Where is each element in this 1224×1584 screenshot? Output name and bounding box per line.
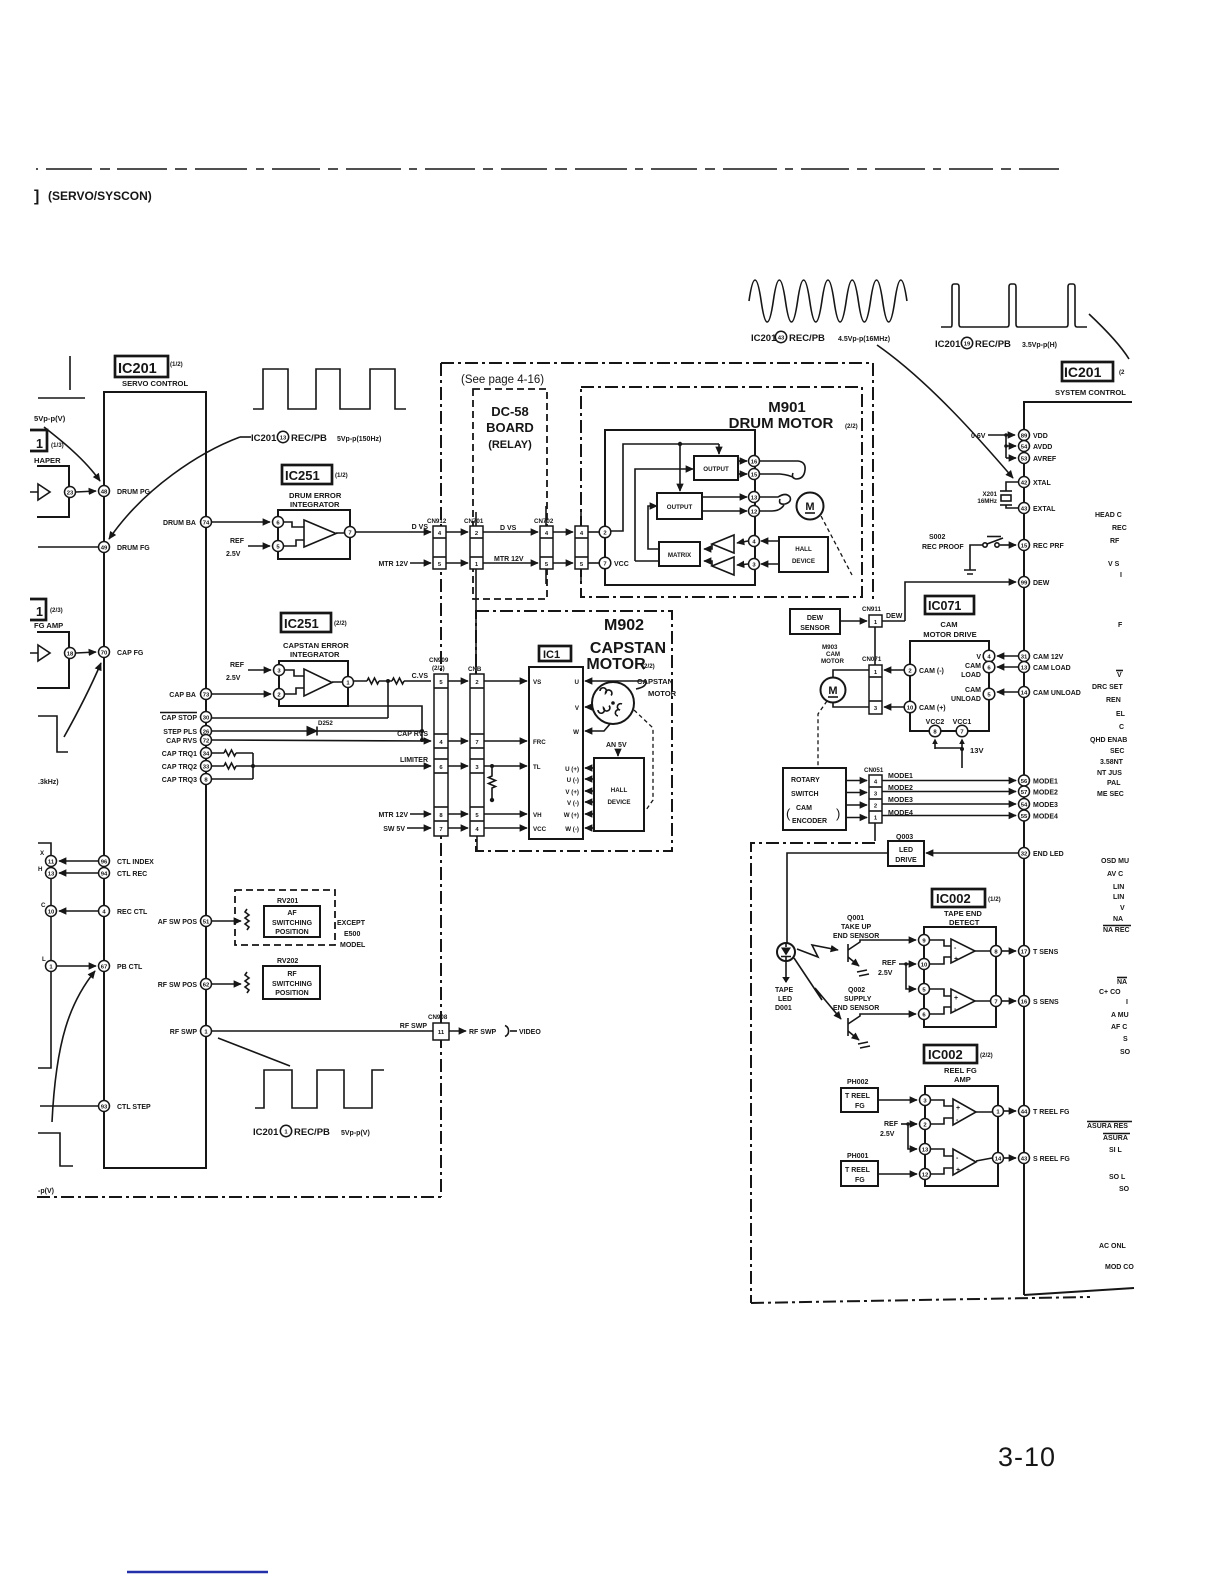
tape end detect block [924, 927, 996, 1027]
svg-text:12: 12 [751, 510, 758, 516]
svg-text:AVREF: AVREF [1033, 456, 1057, 463]
wire PH001 to pin12 [878, 1173, 917, 1175]
svg-text:2.5V: 2.5V [226, 675, 241, 682]
wire PB CTL [57, 965, 96, 967]
op-amp IC071 label box [925, 596, 974, 614]
svg-text:(2/2): (2/2) [980, 1052, 993, 1059]
svg-text:+: + [954, 956, 958, 963]
wire pin7 to S SENS [1002, 1000, 1016, 1002]
svg-text:(1/2): (1/2) [988, 896, 1001, 903]
svg-text:(2: (2 [1119, 369, 1125, 376]
wire AN5V down [617, 749, 619, 756]
svg-text:33: 33 [203, 765, 210, 771]
wire stubs [580, 512, 582, 584]
svg-text:57: 57 [1021, 790, 1028, 796]
svg-text:V: V [1120, 905, 1125, 912]
wire dew sensor to CN911 [840, 620, 867, 622]
svg-text:MODE4: MODE4 [1033, 814, 1058, 821]
svg-text:REF: REF [230, 538, 245, 545]
pin 44 T REEL FG [1019, 1106, 1030, 1117]
coil 3 [615, 704, 622, 716]
fg amp block partial [37, 632, 69, 688]
pin 2 [920, 1119, 931, 1130]
connector on M901 boundary [575, 526, 588, 569]
svg-text:(SERVO/SYSCON): (SERVO/SYSCON) [48, 189, 152, 203]
wire CN701 to CN702 row2 [483, 562, 538, 564]
waveform square wave top [253, 369, 406, 409]
svg-text:13: 13 [1021, 666, 1028, 672]
svg-text:AV C: AV C [1107, 871, 1123, 878]
svg-text:CN909: CN909 [429, 657, 449, 664]
node 10 [46, 906, 57, 917]
svg-text:NA: NA [1113, 916, 1123, 923]
svg-text:REC/PB: REC/PB [789, 333, 825, 344]
svg-text:53: 53 [1021, 457, 1028, 463]
svg-text:5Vp-p(V): 5Vp-p(V) [341, 1130, 370, 1137]
svg-text:SWITCH: SWITCH [791, 791, 819, 798]
wire from pin12 to loop [760, 505, 784, 511]
svg-text:D252: D252 [318, 720, 333, 727]
svg-text:43: 43 [1021, 1157, 1028, 1163]
svg-text:POSITION: POSITION [275, 990, 308, 997]
svg-text:REC/PB: REC/PB [975, 339, 1011, 350]
wire pin1 to T REEL FG [1004, 1110, 1016, 1112]
svg-text:IC002: IC002 [936, 891, 971, 906]
svg-text:M903: M903 [822, 644, 838, 651]
reel fg amp block [925, 1086, 998, 1186]
pin 6 [273, 517, 284, 528]
wire V [585, 706, 592, 708]
coil 1 [600, 688, 612, 696]
svg-text:CAP TRQ1: CAP TRQ1 [162, 751, 197, 758]
wire TRQ join vertical [252, 753, 254, 779]
svg-text:31: 31 [1021, 655, 1028, 661]
svg-text:42: 42 [1021, 481, 1028, 487]
svg-text:OUTPUT: OUTPUT [667, 504, 693, 511]
pin 1 RF SWP [201, 1026, 212, 1037]
svg-text:SO L: SO L [1109, 1174, 1126, 1181]
svg-text:V: V [1117, 672, 1122, 679]
svg-text:CN051: CN051 [864, 767, 884, 774]
svg-text:SWITCHING: SWITCHING [272, 981, 313, 988]
svg-text:TL: TL [533, 764, 541, 771]
svg-text:IC201: IC201 [118, 361, 157, 377]
svg-text:CAM: CAM [826, 651, 840, 658]
svg-text:D VS: D VS [500, 525, 517, 532]
dashed coupling cam motor [818, 701, 827, 766]
svg-text:POSITION: POSITION [275, 929, 308, 936]
pin 13 [920, 1144, 931, 1155]
pin 54 MODE3 [1019, 799, 1030, 810]
wires hall to IC1 [585, 767, 594, 769]
svg-text:C+ CO: C+ CO [1099, 989, 1121, 996]
svg-text:CTL STEP: CTL STEP [117, 1104, 151, 1111]
svg-text:S SENS: S SENS [1033, 999, 1059, 1006]
wire top-left partial box [38, 397, 85, 399]
op-amp comparator 1 [951, 939, 975, 963]
svg-text:32: 32 [1021, 852, 1028, 858]
wire CN912 to CN701 row2 [446, 562, 468, 564]
svg-text:SW 5V: SW 5V [383, 826, 405, 833]
svg-text:VDD: VDD [1033, 433, 1048, 440]
pin 67 PB CTL [99, 961, 110, 972]
svg-text:CAM: CAM [940, 620, 957, 629]
wire 74 to pin6 [212, 521, 270, 523]
svg-text:PB CTL: PB CTL [117, 964, 143, 971]
pin 5 CAM UNLOAD [983, 688, 995, 700]
svg-text:16: 16 [1021, 1000, 1028, 1006]
RV201 inner block [264, 906, 320, 937]
pin 14 CAM UNLOAD [1019, 687, 1030, 698]
svg-text:CN912: CN912 [427, 518, 447, 525]
svg-text:E500: E500 [344, 931, 360, 938]
wire pointer to waveform [218, 1038, 290, 1066]
IC201 system control box edges [1024, 402, 1132, 1295]
svg-text:TAKE UP: TAKE UP [841, 924, 872, 931]
svg-text:V: V [976, 654, 981, 661]
dash-dot frame bottom [751, 1297, 1090, 1303]
svg-text:10: 10 [921, 963, 928, 969]
wire CAP RVS long [212, 740, 431, 741]
wire into output1 top [718, 444, 720, 454]
svg-text:SEC: SEC [1110, 748, 1124, 755]
pin 96 CTL INDEX [99, 856, 110, 867]
matrix block [659, 542, 700, 566]
dash-dot tape sensor frame [751, 843, 875, 1303]
pin 8 VCC2 [929, 725, 941, 737]
svg-text:DRUM FG: DRUM FG [117, 545, 150, 552]
pin 49 DRUM FG [99, 542, 110, 553]
curve sine label to XTAL pin [877, 345, 1013, 478]
wire CNB bottom stub [476, 836, 478, 851]
svg-text:EXTAL: EXTAL [1033, 506, 1056, 513]
waveform sine 16MHz [749, 280, 907, 322]
svg-text:13V: 13V [970, 746, 984, 755]
svg-text:IC002: IC002 [928, 1047, 963, 1062]
svg-text:.3kHz): .3kHz) [38, 779, 59, 786]
svg-text:IC251: IC251 [285, 468, 320, 483]
svg-text:44: 44 [1021, 1110, 1028, 1116]
svg-text:IC071: IC071 [928, 599, 961, 613]
node 13 [46, 868, 57, 879]
wire top-left vertical stub [69, 356, 71, 390]
svg-text:REC/PB: REC/PB [294, 1127, 330, 1138]
svg-text:IC1: IC1 [543, 649, 560, 661]
svg-text:3-10: 3-10 [998, 1442, 1056, 1472]
cam motor drive block [910, 641, 989, 731]
svg-text:RF: RF [1110, 538, 1120, 545]
pin 1 [343, 677, 354, 688]
svg-text:DEW: DEW [807, 615, 824, 622]
svg-text:BOARD: BOARD [486, 420, 534, 435]
relay board DC-58 boundary [473, 389, 547, 599]
wire to AVREF [1006, 457, 1016, 459]
svg-text:RV201: RV201 [277, 898, 298, 905]
svg-text:C: C [41, 902, 46, 909]
svg-text:IC201: IC201 [251, 433, 277, 444]
op-amp IC002 tape end label box [932, 889, 985, 907]
svg-text:(1/2): (1/2) [335, 472, 348, 479]
resistor R2 [392, 678, 404, 684]
svg-text:RV202: RV202 [277, 958, 298, 965]
wire LED drive to tape LED [787, 853, 888, 943]
svg-text:MODE1: MODE1 [888, 773, 913, 780]
svg-text:HEAD C: HEAD C [1095, 512, 1122, 519]
svg-text:L: L [42, 956, 46, 963]
fg-amp IC label partial box [30, 599, 46, 620]
svg-text:10: 10 [48, 910, 55, 916]
svg-text:RF SWP: RF SWP [400, 1023, 428, 1030]
svg-text:H: H [38, 866, 43, 873]
pin 70 CAP FG [99, 647, 110, 658]
amplifier symbol partial in shaper [30, 484, 50, 500]
wire junction down to CAP STOP [387, 681, 389, 718]
svg-text:DRC SET: DRC SET [1092, 684, 1123, 691]
wire output1 to pin16 [738, 460, 747, 462]
box bottom edge [1024, 1288, 1134, 1295]
wire REC CTL [59, 910, 98, 912]
pin 43 S REEL FG [1019, 1153, 1030, 1164]
svg-text:DEVICE: DEVICE [607, 799, 630, 806]
wire winding loop from pin13 [760, 495, 790, 505]
wire 0 6V to VDD [988, 434, 1015, 436]
wire CAP STOP [212, 717, 388, 719]
pin 5 [273, 541, 284, 552]
svg-text:43: 43 [778, 336, 785, 342]
wire 13V supply [935, 741, 962, 768]
svg-text:(2/2): (2/2) [845, 423, 858, 430]
svg-text:(1/2): (1/2) [170, 361, 183, 368]
svg-text:AF C: AF C [1111, 1024, 1127, 1031]
wire matrix to output2 [648, 506, 659, 549]
wire amp1 to matrix [704, 544, 712, 549]
wire CN911 to dew net [882, 620, 905, 622]
curve pulse label toward IC201 [1089, 314, 1129, 359]
wire pin4 to amp1 [737, 541, 748, 543]
pin 2 CAM(-) [904, 664, 916, 676]
svg-text:VCC: VCC [614, 561, 629, 568]
svg-text:13: 13 [280, 436, 287, 442]
svg-text:17: 17 [1021, 950, 1028, 956]
svg-text:D001: D001 [775, 1005, 792, 1012]
op-amp IC201 system control label box [1062, 362, 1113, 381]
svg-text:CN908: CN908 [428, 1014, 448, 1021]
op-amp reel 1 [953, 1099, 976, 1125]
pin 7 VCC [599, 557, 611, 569]
svg-text:M: M [805, 501, 814, 513]
pin 53 AVREF [1019, 453, 1030, 464]
pin 8 CAP TRQ3 [201, 774, 212, 785]
svg-text:CAPSTAN ERROR: CAPSTAN ERROR [283, 641, 349, 650]
svg-text:CN701: CN701 [464, 518, 484, 525]
svg-text:SO: SO [1119, 1186, 1130, 1193]
node step pls junction [420, 729, 424, 733]
svg-text:IC201: IC201 [751, 333, 777, 344]
svg-text:MOTOR: MOTOR [648, 689, 677, 698]
blue scan artifact line [127, 1571, 268, 1573]
svg-text:48: 48 [101, 490, 108, 496]
svg-text:VH: VH [533, 812, 542, 819]
pin 32 END LED [1019, 848, 1030, 859]
svg-text:TAPE: TAPE [775, 987, 793, 994]
pin 43 EXTAL [1019, 503, 1030, 514]
svg-text:END SENSOR: END SENSOR [833, 1005, 879, 1012]
wire CN701 to CN702 row1 [483, 531, 538, 533]
dash-dot frame right edge [872, 363, 874, 601]
svg-text:18: 18 [67, 652, 74, 658]
pin 6 [919, 1009, 930, 1020]
pin 12 [920, 1169, 931, 1180]
svg-text:+: + [956, 1105, 960, 1112]
wire CN701 stub up [475, 512, 477, 526]
wire C.VS output with resistors [354, 680, 431, 682]
svg-text:74: 74 [203, 521, 210, 527]
svg-text:30: 30 [203, 716, 210, 722]
pin 4 V [983, 650, 995, 662]
wire CN702 to CN903 row2 [553, 562, 573, 564]
svg-text:REC/PB: REC/PB [291, 433, 327, 444]
svg-text:W (+): W (+) [564, 812, 579, 819]
op-amp IC201 servo control label box [115, 356, 168, 377]
pin 56 MODE1 [1019, 775, 1030, 786]
svg-text:1: 1 [36, 437, 43, 451]
IC1 block [529, 667, 583, 839]
pin 14 [993, 1153, 1004, 1164]
svg-text:+: + [954, 995, 958, 1002]
svg-text:F: F [1118, 622, 1123, 629]
pin 3 [274, 665, 285, 676]
svg-text:S REEL FG: S REEL FG [1033, 1156, 1070, 1163]
svg-text:W (-): W (-) [565, 826, 579, 833]
wire to drum motor pin7 [588, 562, 599, 564]
svg-text:VCC: VCC [533, 826, 547, 833]
wire into DRUM FG [38, 546, 98, 548]
wire MTR 12V [410, 813, 431, 815]
pin 15 [749, 469, 760, 480]
svg-text:ASURA: ASURA [1103, 1135, 1128, 1142]
diode D252 [305, 727, 317, 736]
op-amp reel 2 [953, 1149, 976, 1175]
wire pin32 to LED drive [926, 852, 1018, 854]
svg-text:LIMITER: LIMITER [400, 757, 428, 764]
svg-text:T REEL: T REEL [845, 1093, 871, 1100]
svg-text:96: 96 [101, 860, 108, 866]
svg-text:STEP PLS: STEP PLS [163, 729, 197, 736]
svg-text:HALL: HALL [795, 546, 812, 553]
wire PH002 to pin3 [878, 1099, 917, 1101]
wire output1 to pin15 [738, 473, 747, 475]
svg-text:SENSOR: SENSOR [800, 625, 830, 632]
svg-text:DEW: DEW [886, 613, 903, 620]
svg-text:RF SWP: RF SWP [469, 1029, 497, 1036]
svg-text:10: 10 [907, 706, 914, 712]
svg-text:EL: EL [1116, 711, 1126, 718]
pin 3 [920, 1095, 931, 1106]
svg-text:ME SEC: ME SEC [1097, 791, 1124, 798]
pin 7 VCC1 [956, 725, 968, 737]
svg-text:ASURA RES: ASURA RES [1087, 1123, 1128, 1130]
pin 55 MODE4 [1019, 810, 1030, 821]
svg-text:EXCEPT: EXCEPT [337, 920, 366, 927]
shaper block partial [37, 466, 69, 517]
svg-text:3.5Vp-p(H): 3.5Vp-p(H) [1022, 342, 1057, 349]
IC1 label box [539, 646, 571, 661]
svg-text:16MHz: 16MHz [977, 498, 997, 505]
svg-text:ROTARY: ROTARY [791, 777, 820, 784]
pin 4 [749, 536, 760, 547]
pin 89 VDD [1019, 430, 1030, 441]
svg-text:FG AMP: FG AMP [34, 621, 63, 630]
waveform partial pulse bottom left [38, 1133, 73, 1166]
svg-text:89: 89 [1021, 434, 1028, 440]
node cap rvs junction [420, 738, 424, 742]
pin 1 [993, 1106, 1004, 1117]
wire motor to CN071 pin3 [833, 703, 869, 707]
wire ref to pin3 [248, 669, 271, 671]
resistor R5 vertical on TL branch [489, 766, 496, 800]
curve from 5Vp-p(V) label to pin 48 [44, 427, 100, 481]
svg-text:S002: S002 [929, 534, 945, 541]
wire hall to pin4 [761, 540, 779, 542]
svg-text:(2/2): (2/2) [432, 665, 445, 672]
svg-text:DRUM BA: DRUM BA [163, 520, 196, 527]
svg-text:T REEL FG: T REEL FG [1033, 1109, 1070, 1116]
svg-text:54: 54 [1021, 445, 1028, 451]
wire ref to pin2 and pin13 [901, 1123, 917, 1125]
wire DEW from CN911 [905, 582, 1016, 621]
drum motor M901 boundary [581, 387, 862, 597]
svg-text:13: 13 [751, 496, 758, 502]
waveform partial pulse left mid [38, 716, 68, 752]
resistor R1 [367, 678, 379, 684]
svg-text:HAPER: HAPER [34, 456, 61, 465]
svg-text:(: ( [786, 806, 791, 821]
pin 54 AVDD [1019, 441, 1030, 452]
potentiometer wiper RV201 [245, 909, 249, 930]
wire W [585, 724, 610, 731]
amplifier A1 triangle [712, 535, 734, 553]
svg-text:C.VS: C.VS [412, 673, 429, 680]
pin 2 [599, 526, 611, 538]
wire output2 to pin13 [702, 496, 747, 498]
svg-text:C: C [1119, 724, 1124, 731]
svg-text:CAP RVS: CAP RVS [397, 731, 428, 738]
svg-text:REN: REN [1106, 697, 1121, 704]
svg-text:V (-): V (-) [567, 800, 579, 807]
pin 7 [345, 527, 356, 538]
page separator dash-dot line [36, 168, 1059, 170]
wire CN911 down to CN071 [874, 627, 876, 665]
svg-text:REEL FG: REEL FG [944, 1066, 977, 1075]
op-amp IC002 reel fg label box [924, 1045, 977, 1063]
svg-text:DRUM PG: DRUM PG [117, 489, 151, 496]
capstan error integrator block [279, 661, 348, 706]
svg-text:NT JUS: NT JUS [1097, 770, 1122, 777]
svg-text:LOAD: LOAD [961, 672, 981, 679]
svg-text:2.5V: 2.5V [880, 1131, 895, 1138]
svg-text:67: 67 [101, 965, 108, 971]
wire ref to pin10 and pin5 [899, 963, 916, 965]
op-amp IC251 drum label box [282, 465, 332, 484]
svg-text:END LED: END LED [1033, 851, 1064, 858]
svg-text:FG: FG [855, 1103, 865, 1110]
wires CNB to IC1 [484, 680, 527, 682]
svg-text:5Vp-p(V): 5Vp-p(V) [34, 414, 66, 423]
svg-text:CAM UNLOAD: CAM UNLOAD [1033, 690, 1081, 697]
amplifier symbol partial in fg amp [30, 645, 50, 661]
wire CAP TRQ3 [212, 778, 253, 780]
node 11 [46, 856, 57, 867]
